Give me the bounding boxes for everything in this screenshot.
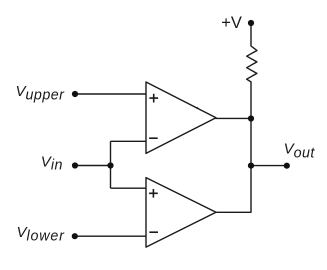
svg-text:Vout: Vout [284, 140, 316, 161]
svg-text:Vlower: Vlower [17, 224, 66, 245]
svg-text:Vupper: Vupper [16, 83, 66, 103]
svg-text:Vin: Vin [41, 153, 63, 173]
svg-text:+V: +V [221, 14, 242, 32]
